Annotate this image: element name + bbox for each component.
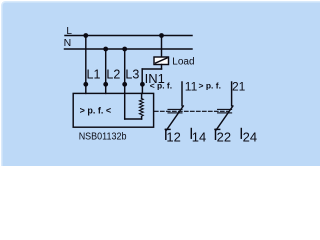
svg-text:24: 24 — [243, 129, 257, 144]
svg-text:21: 21 — [232, 80, 246, 94]
svg-text:N: N — [64, 37, 72, 49]
svg-text:12: 12 — [166, 129, 180, 144]
svg-text:22: 22 — [217, 129, 231, 144]
svg-text:L: L — [66, 26, 72, 37]
svg-text:L2: L2 — [106, 67, 120, 81]
svg-text:L3: L3 — [125, 67, 139, 81]
svg-text:Load: Load — [172, 56, 194, 67]
svg-text:NSB01132b: NSB01132b — [79, 132, 127, 143]
svg-text:L1: L1 — [87, 67, 101, 81]
svg-text:< p. f.: < p. f. — [150, 80, 172, 90]
svg-text:11: 11 — [185, 80, 198, 94]
svg-text:14: 14 — [192, 129, 206, 144]
svg-text:> p. f. <: > p. f. < — [80, 105, 112, 115]
svg-text:> p. f.: > p. f. — [199, 80, 221, 90]
